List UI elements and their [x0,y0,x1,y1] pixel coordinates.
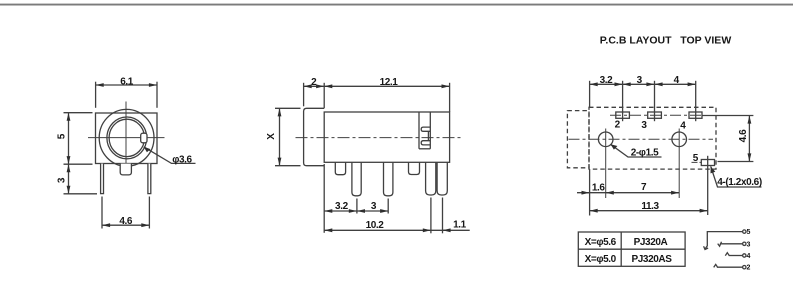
dim 3 line [357,210,388,212]
svg-text:PJ320AS: PJ320AS [631,254,672,265]
side view switch contact connector [427,131,429,140]
svg-text:X: X [266,133,277,140]
side view body [324,112,449,162]
schematic contact pin 4 [725,253,729,256]
svg-text:2: 2 [747,265,751,272]
front view bottom tab [120,164,131,175]
side view centerline [296,137,462,139]
dim 2 extension lines [303,83,305,107]
side view long pin 6 [437,162,447,195]
dim 5 line [68,113,70,165]
pcb dim 1.6 and 7 line [577,192,679,194]
svg-text:10.2: 10.2 [366,220,385,231]
svg-text:5: 5 [747,229,751,236]
svg-text:1.1: 1.1 [453,220,467,231]
svg-text:φ3.6: φ3.6 [172,154,192,165]
svg-text:1.6: 1.6 [592,182,606,193]
dim 3.2 extension lines [323,164,325,233]
svg-text:3: 3 [641,120,647,131]
svg-text:5: 5 [57,133,68,139]
side view pin 3 [384,162,393,195]
dim 3 extension line [64,193,98,195]
dim 4.6 extension lines [101,197,103,229]
svg-text:4: 4 [747,253,751,260]
svg-text:3.2: 3.2 [335,201,349,212]
front view centerline horizontal [88,137,165,139]
front view inner bore circle 2 [109,119,144,156]
dim 6.1 extension lines [95,82,97,108]
top border line [0,4,793,6]
pcb holes centerline [569,138,714,140]
dim 10.2 extension line [430,198,432,234]
front view inner bore circle [107,117,147,159]
svg-text:X=φ5.6: X=φ5.6 [585,237,617,248]
schematic contact pin 2 [714,264,718,267]
pcb dashed outline barrel [567,111,589,168]
front view centerline vertical [125,102,127,173]
side view switch slot [418,112,420,149]
svg-text:4-(1.2x0.6): 4-(1.2x0.6) [717,177,762,188]
svg-text:3: 3 [371,201,377,212]
schematic sleeve pin 5 [705,232,743,250]
pcb pad 3 [648,112,662,118]
dim 3 line [68,164,70,194]
dim 3 extension line [387,199,389,214]
pcb pad 4 [689,112,702,118]
svg-text:4.6: 4.6 [738,129,749,143]
dim 1.1 extension line [442,198,444,234]
pcb dim 4.6 line [748,116,750,162]
dim 10.2 line [324,229,431,231]
dim 1.1 line [431,229,470,231]
pcb dim 3.2 line [590,83,623,85]
dim 2 line [304,85,325,87]
pcb dashed outline body [589,107,716,169]
front view outer circle [99,109,154,166]
side view switch contact lower tongue [421,141,430,145]
dim X line [279,108,281,165]
table frame [578,232,685,266]
svg-text:11.3: 11.3 [641,201,659,212]
svg-text:12.1: 12.1 [380,77,399,88]
side view long pin 5 [426,162,436,195]
side view peg 4 [409,162,420,174]
pcb dim 11.3 line [590,210,708,212]
dim X extension lines [275,107,301,109]
pcb top dim extension lines [589,81,591,108]
svg-text:5: 5 [693,153,699,164]
dim 5 extension lines [64,112,93,114]
leader phi 3.6 [144,147,196,164]
front view right pin [148,164,151,194]
leader 4-(1.2x0.6) [711,166,762,187]
svg-text:6.1: 6.1 [120,77,134,88]
pcb pad5 centerline left [692,161,702,163]
pcb pad 5 [701,160,714,166]
dim 3.2 line [324,210,357,212]
svg-text:2: 2 [311,77,317,88]
dim 12.1 extension line [449,83,451,112]
svg-text:PJ320A: PJ320A [634,237,668,248]
svg-text:3: 3 [56,177,67,183]
pcb pads centerline [610,114,704,116]
svg-text:2-φ1.5: 2-φ1.5 [631,147,659,158]
svg-text:X=φ5.0: X=φ5.0 [585,254,617,265]
pcb pad 2 [616,112,630,118]
front view contact notch [141,133,147,143]
svg-text:2: 2 [615,120,621,131]
dim 4.6 line [102,224,149,226]
svg-text:3: 3 [637,75,643,86]
schematic contact pin 3 [718,242,722,247]
svg-text:P.C.B LAYOUT TOP VIEW: P.C.B LAYOUT TOP VIEW [600,35,732,47]
dim 6.1 line [96,84,157,86]
side view pin 2 [352,162,361,195]
pcb dim 4 line [655,83,696,85]
pcb hole right [672,132,687,147]
front view left pin [101,164,104,194]
svg-text:4.6: 4.6 [119,216,133,227]
leader 2-phi1.5 [611,144,662,157]
pcb dim 3 line [623,83,655,85]
pcb dim 4.6 extension lines [702,115,753,117]
svg-text:3: 3 [747,241,751,248]
svg-text:4: 4 [674,75,680,86]
front view body square [96,113,158,164]
side view peg 1 [335,162,345,174]
svg-text:3.2: 3.2 [600,75,614,86]
pcb hole left [598,132,613,147]
dim 12.1 line [324,85,449,87]
svg-text:7: 7 [641,182,647,193]
side view switch contact upper tongue [421,127,430,131]
svg-text:4: 4 [680,120,686,131]
pcb bottom ref extension line [589,169,591,215]
side view barrel [304,108,325,165]
